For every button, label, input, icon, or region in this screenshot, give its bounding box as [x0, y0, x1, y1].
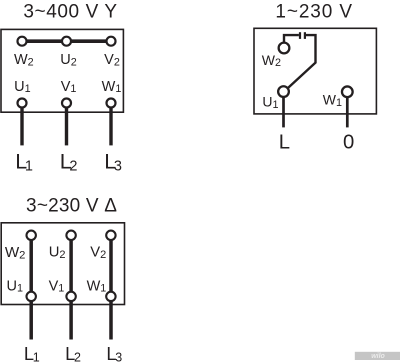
wire: W2/U1 link to L1: [29, 235, 33, 339]
terminal W2: [18, 37, 27, 46]
wire: lead W1 to 0: [346, 92, 349, 128]
wire: V2/W1 link to L3: [109, 235, 113, 339]
svg-text:1~230 V: 1~230 V: [275, 1, 353, 22]
svg-text:0: 0: [343, 131, 354, 153]
terminal U1: [27, 292, 36, 301]
terminal U1: [278, 86, 289, 97]
wire: lead U1 to L: [282, 92, 285, 128]
terminal U1: [18, 99, 27, 108]
terminal V2: [106, 231, 115, 240]
watermark bar: [355, 352, 400, 360]
capacitor right plate: [304, 32, 306, 39]
capacitor left plate: [299, 32, 301, 39]
terminal V1: [66, 292, 75, 301]
terminal U2: [66, 231, 75, 240]
wire: lead W1 to L3: [109, 103, 112, 145]
terminal U2: [62, 37, 71, 46]
terminal box (star): [1, 29, 123, 112]
terminal V1: [62, 99, 71, 108]
terminal box (single-phase): [254, 28, 376, 114]
wire: bridge bar linking W2-U2-V2: [22, 39, 111, 43]
wire: lead U1 to L1: [20, 103, 23, 145]
terminal W2: [279, 43, 290, 54]
terminal box (delta): [1, 223, 124, 305]
svg-text:L: L: [279, 131, 290, 153]
terminal W1: [342, 86, 353, 97]
terminal W2: [27, 231, 36, 240]
wire: U2/V1 link to L2: [69, 235, 73, 339]
svg-text:3~230 V Δ: 3~230 V Δ: [26, 196, 117, 217]
wire: capacitor right plate to U1: [284, 35, 316, 92]
wire: W2 to capacitor left plate: [284, 35, 299, 48]
svg-text:wilo: wilo: [371, 353, 385, 360]
wire: lead V1 to L2: [65, 103, 68, 145]
terminal W1: [107, 99, 116, 108]
terminal V2: [107, 37, 116, 46]
terminal W1: [106, 292, 115, 301]
svg-text:3~400 V Y: 3~400 V Y: [23, 2, 117, 23]
